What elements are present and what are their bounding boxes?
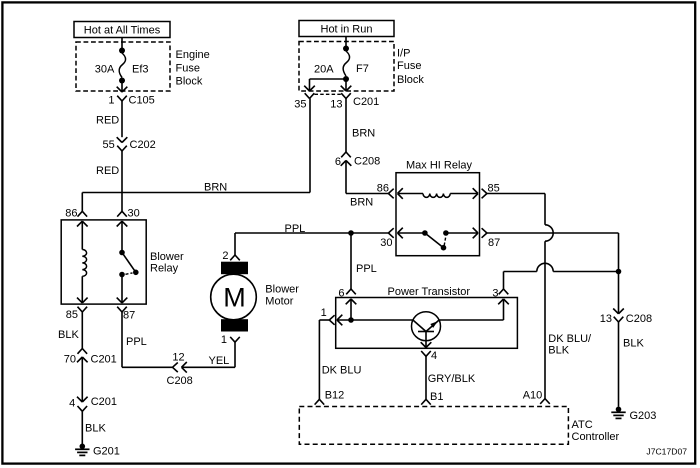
svg-text:1: 1 [321, 307, 327, 319]
svg-text:C105: C105 [129, 95, 155, 107]
svg-text:BRN: BRN [352, 128, 375, 140]
svg-text:M: M [223, 283, 246, 313]
svg-text:J7C17D07: J7C17D07 [646, 447, 687, 457]
svg-text:55: 55 [103, 139, 115, 151]
svg-text:C201: C201 [91, 354, 117, 366]
svg-text:35: 35 [294, 99, 306, 111]
svg-text:1: 1 [108, 95, 114, 107]
svg-text:Ef3: Ef3 [132, 63, 149, 75]
svg-text:G201: G201 [93, 446, 120, 458]
svg-text:30: 30 [128, 208, 140, 220]
svg-text:B12: B12 [325, 390, 345, 402]
svg-text:PPL: PPL [356, 263, 377, 275]
svg-text:Blower: Blower [150, 251, 184, 263]
svg-text:Fuse: Fuse [397, 60, 421, 72]
svg-text:BLK: BLK [548, 344, 569, 356]
svg-text:86: 86 [377, 183, 389, 195]
svg-text:F7: F7 [356, 63, 369, 75]
svg-text:Controller: Controller [572, 431, 620, 443]
svg-text:1: 1 [221, 334, 227, 346]
svg-text:BLK: BLK [85, 423, 106, 435]
svg-text:RED: RED [96, 115, 119, 127]
svg-text:70: 70 [64, 353, 76, 365]
svg-text:C201: C201 [91, 396, 117, 408]
svg-text:DK BLU: DK BLU [322, 365, 362, 377]
svg-text:BLK: BLK [623, 338, 644, 350]
svg-text:20A: 20A [314, 63, 334, 75]
svg-text:BRN: BRN [204, 182, 227, 194]
svg-text:BRN: BRN [350, 197, 373, 209]
svg-text:B1: B1 [430, 391, 443, 403]
svg-text:Block: Block [176, 76, 203, 88]
svg-text:RED: RED [96, 165, 119, 177]
svg-text:I/P: I/P [397, 48, 410, 60]
svg-text:Fuse: Fuse [176, 62, 200, 74]
svg-text:DK BLU/: DK BLU/ [548, 333, 592, 345]
svg-text:PPL: PPL [285, 223, 306, 235]
svg-text:30A: 30A [95, 63, 115, 75]
svg-text:C208: C208 [626, 313, 652, 325]
svg-text:12: 12 [172, 352, 184, 364]
svg-text:13: 13 [600, 313, 612, 325]
svg-text:6: 6 [335, 156, 341, 168]
svg-text:Hot at All Times: Hot at All Times [84, 25, 161, 37]
svg-text:GRY/BLK: GRY/BLK [428, 373, 476, 385]
svg-text:Blower: Blower [265, 283, 299, 295]
svg-text:Block: Block [397, 74, 424, 86]
svg-text:87: 87 [123, 309, 135, 321]
svg-text:4: 4 [431, 350, 437, 362]
svg-text:Power Transistor: Power Transistor [388, 286, 471, 298]
svg-text:3: 3 [492, 288, 498, 300]
svg-text:Relay: Relay [150, 262, 179, 274]
svg-text:6: 6 [338, 288, 344, 300]
svg-text:Motor: Motor [265, 295, 293, 307]
svg-text:Max HI Relay: Max HI Relay [406, 160, 473, 172]
svg-text:YEL: YEL [209, 355, 230, 367]
svg-text:BLK: BLK [58, 329, 79, 341]
svg-text:4: 4 [69, 397, 75, 409]
svg-text:Hot in Run: Hot in Run [321, 24, 373, 36]
svg-text:A10: A10 [523, 389, 543, 401]
svg-text:86: 86 [65, 207, 77, 219]
svg-text:C201: C201 [353, 96, 379, 108]
svg-text:85: 85 [66, 309, 78, 321]
svg-text:ATC: ATC [572, 419, 593, 431]
svg-text:G203: G203 [630, 410, 657, 422]
svg-text:30: 30 [380, 237, 392, 249]
svg-text:Engine: Engine [176, 49, 210, 61]
svg-text:PPL: PPL [126, 336, 147, 348]
svg-text:2: 2 [222, 250, 228, 262]
svg-text:87: 87 [488, 237, 500, 249]
svg-text:13: 13 [330, 99, 342, 111]
svg-text:C208: C208 [167, 375, 193, 387]
svg-text:C202: C202 [130, 139, 156, 151]
svg-text:C208: C208 [354, 156, 380, 168]
